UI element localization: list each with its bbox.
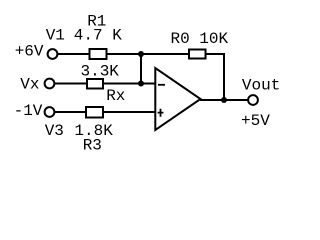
svg-text:R3: R3 — [83, 137, 102, 155]
svg-text:Vout: Vout — [242, 77, 280, 95]
resistor R1 — [90, 49, 107, 59]
node junction dot output — [221, 97, 227, 103]
svg-text:Vx: Vx — [20, 76, 39, 94]
svg-text:Rx: Rx — [106, 87, 125, 105]
node junction dot inverting input — [138, 81, 144, 87]
svg-text:+5V: +5V — [241, 112, 270, 130]
op-amp U1 — [155, 68, 200, 130]
wire op-amp output to Vout — [200, 99, 248, 101]
wire row3 V3 to op-amp non-inverting input — [55, 111, 156, 113]
op-amp minus sign — [158, 84, 165, 86]
resistor R3 — [86, 107, 103, 118]
svg-text:3.3K: 3.3K — [81, 63, 120, 81]
op-amp plus sign — [158, 109, 164, 117]
terminal V1 — [48, 49, 58, 59]
wire row1 V1 to R0 — [58, 53, 189, 55]
svg-text:V1: V1 — [46, 26, 65, 44]
wire R0 right to output node — [206, 54, 225, 100]
svg-text:4.7 K: 4.7 K — [74, 26, 122, 44]
svg-text:R0 10K: R0 10K — [171, 30, 229, 48]
svg-text:+6V: +6V — [15, 42, 44, 60]
wire row2 Vx to op-amp inverting input — [55, 83, 156, 85]
resistor R0 — [189, 50, 206, 59]
node junction dot row1 — [138, 51, 144, 57]
wire vertical feedback node to inverting input — [140, 54, 142, 84]
svg-text:V3: V3 — [45, 122, 64, 140]
terminal Vout — [248, 95, 258, 105]
terminal Vx — [45, 79, 55, 89]
resistor Rx — [87, 79, 103, 89]
svg-text:-1V: -1V — [14, 102, 43, 120]
terminal V3 — [45, 107, 55, 117]
